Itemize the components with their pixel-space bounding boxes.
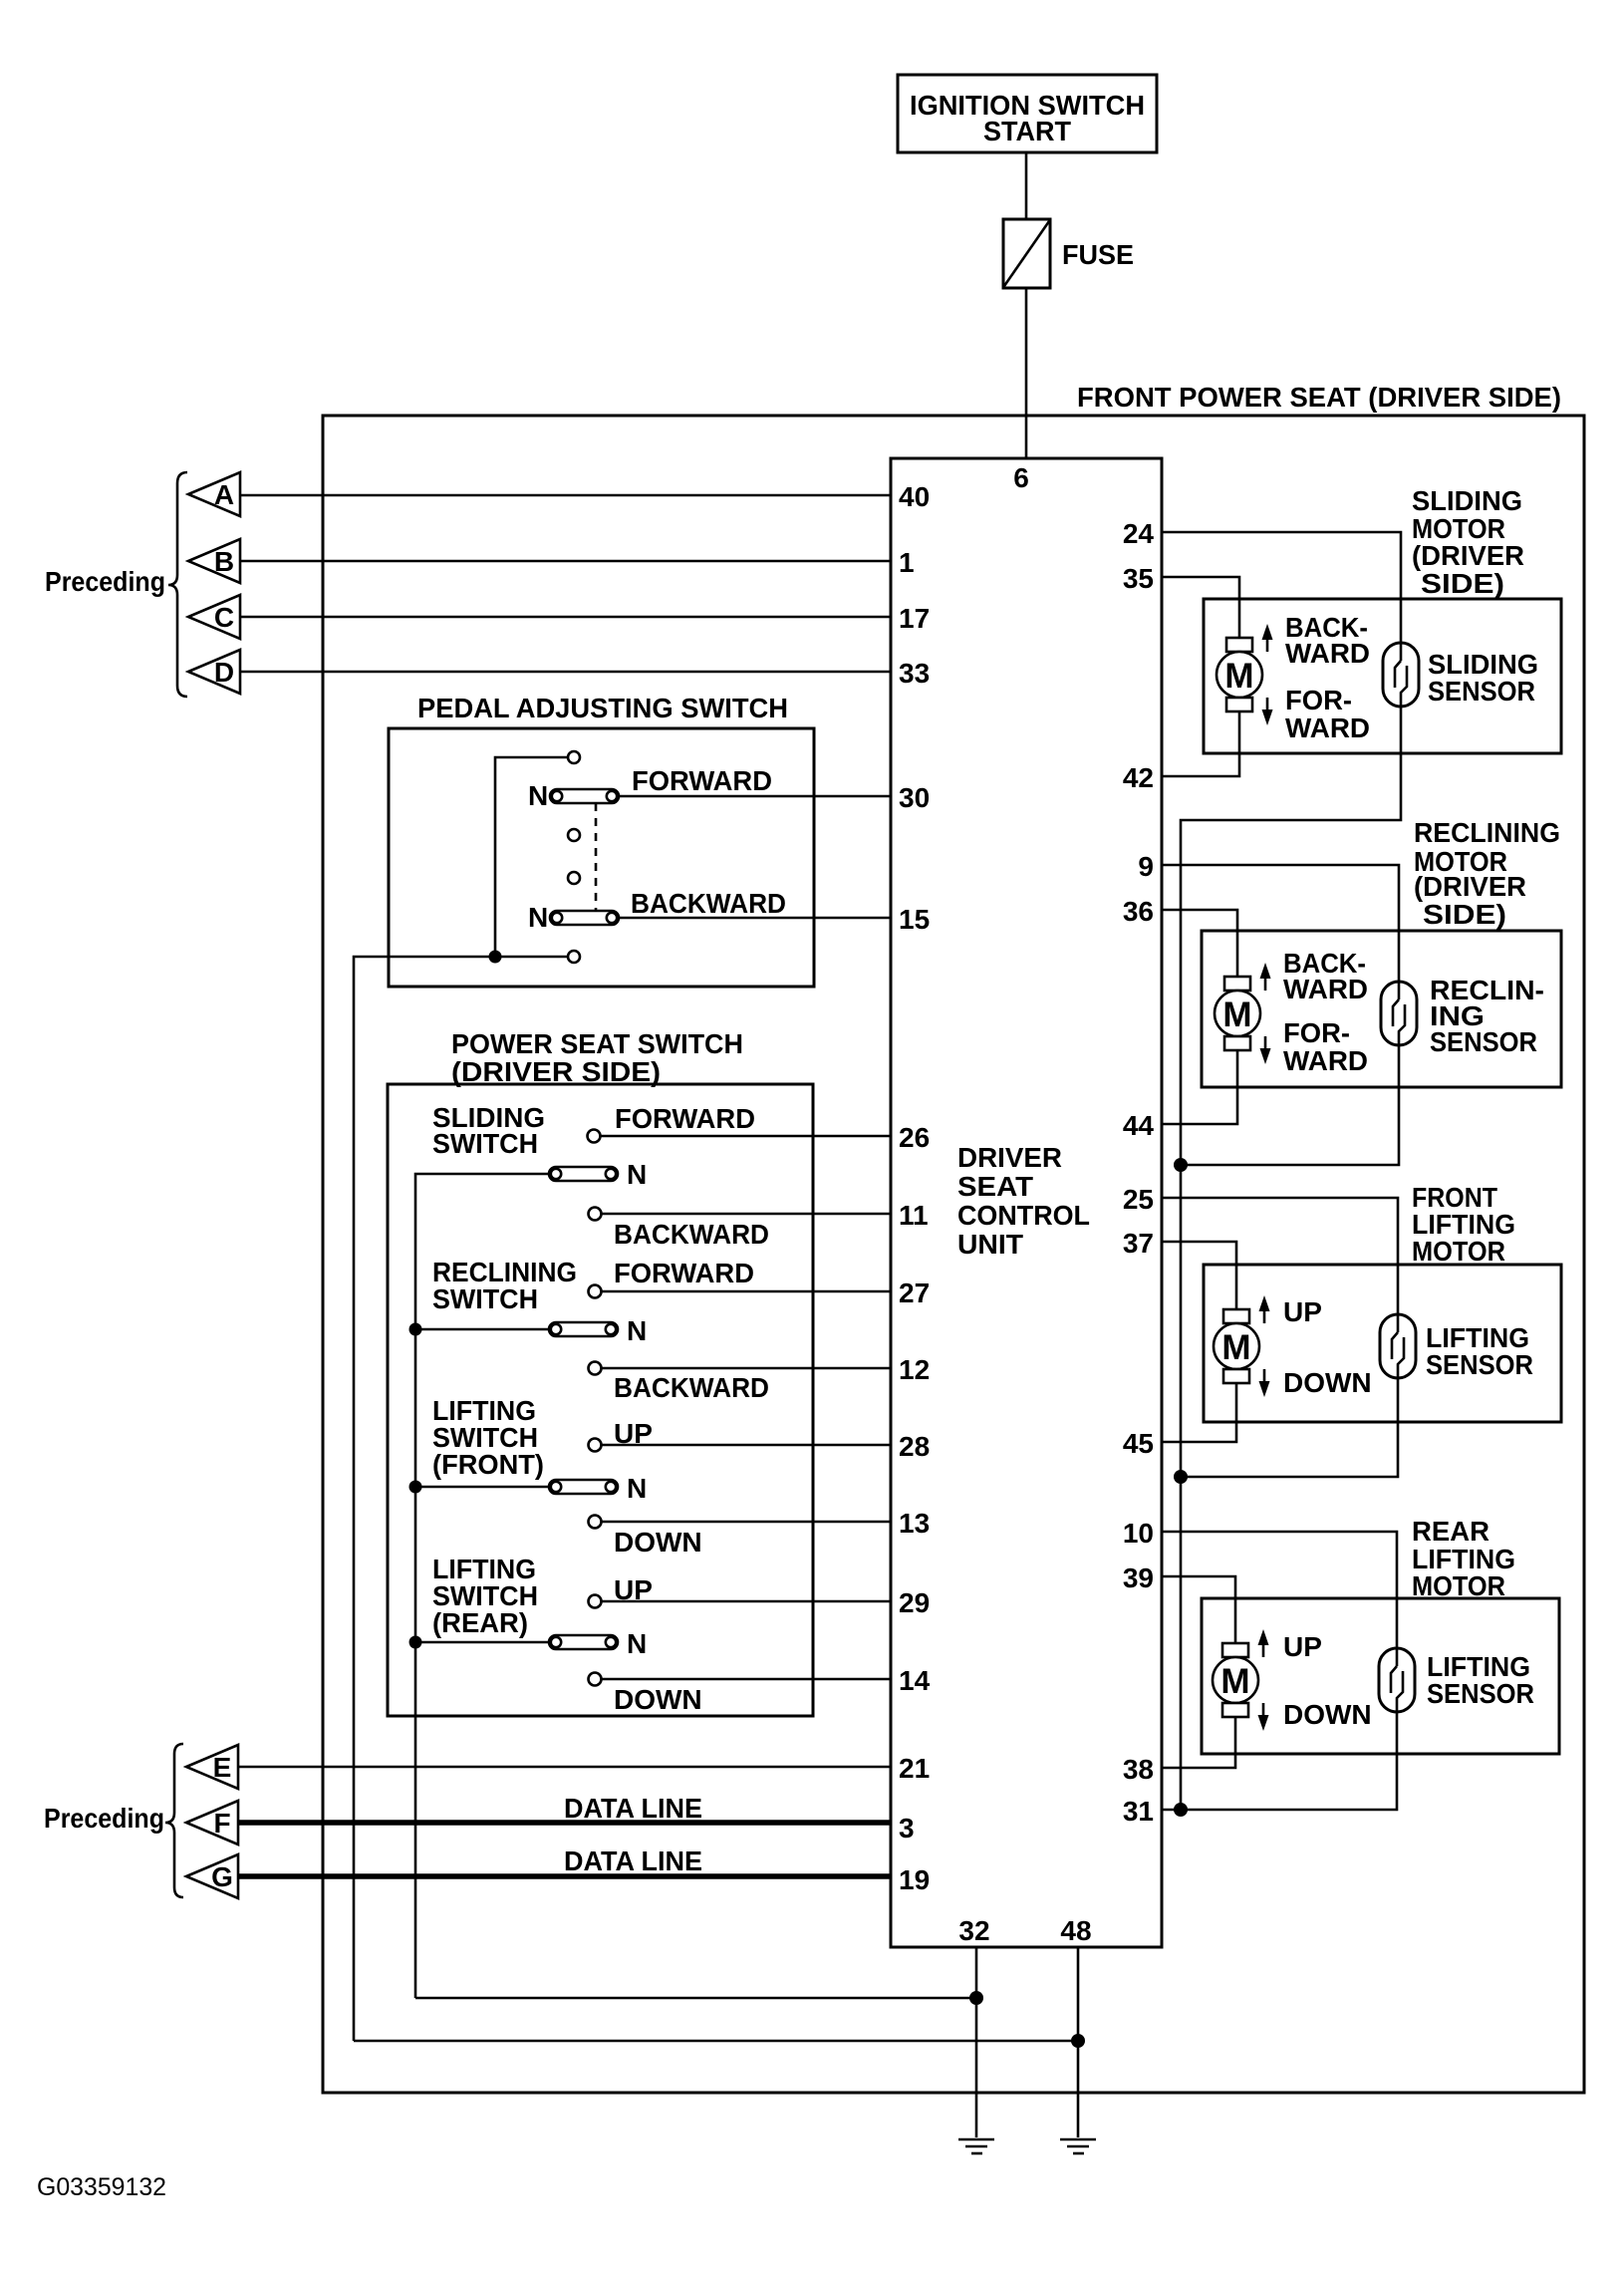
label BACK-WARD (sliding) (1285, 612, 1370, 669)
contact (bottom) (568, 951, 580, 963)
label SLIDING SENSOR (1428, 649, 1538, 707)
rear lifting motor box (1202, 1598, 1559, 1754)
arrow up (rear lifting) (1258, 1629, 1269, 1657)
wire rear lifting motor to pin 38 (1162, 1717, 1235, 1768)
svg-text:42: 42 (1123, 762, 1154, 793)
wire junction to rear lifting bar (415, 1641, 549, 1644)
wire pedal common to ground line (354, 957, 568, 2041)
wire to pin 15 (619, 917, 891, 920)
svg-text:FORWARD: FORWARD (632, 765, 772, 796)
connector arrow F (186, 1801, 238, 1844)
arrow down (rear lifting) (1258, 1703, 1269, 1731)
svg-text:REAR: REAR (1412, 1516, 1489, 1547)
power seat switch box (388, 1084, 813, 1716)
svg-text:26: 26 (899, 1122, 930, 1153)
svg-text:1: 1 (899, 547, 915, 578)
arrow down (front lifting) (1259, 1369, 1270, 1397)
contact reclining backward (589, 1362, 602, 1375)
wire G to pin 19 (data line) (238, 1873, 891, 1879)
svg-text:WARD: WARD (1285, 638, 1370, 669)
wire F to pin 3 (data line) (238, 1820, 891, 1826)
svg-text:M: M (1220, 1662, 1249, 1701)
svg-text:B: B (214, 546, 234, 577)
brace upper preceding group (168, 472, 187, 697)
wire reclining sensor to bus (1181, 1045, 1399, 1165)
wire junction to front lifting bar (415, 1486, 549, 1489)
motor M3 front lifting (1214, 1309, 1259, 1383)
svg-text:POWER SEAT SWITCH: POWER SEAT SWITCH (451, 1028, 743, 1059)
wire pin 35 to sliding motor (1162, 577, 1239, 638)
svg-text:6: 6 (1013, 462, 1029, 493)
wire to pin 29 (602, 1600, 891, 1603)
rear lifting sensor (1379, 1648, 1415, 1712)
svg-text:SIDE): SIDE) (1423, 899, 1506, 930)
pedal adjusting switch box (389, 728, 814, 987)
svg-text:31: 31 (1123, 1796, 1154, 1827)
label LIFTING SWITCH (REAR) (432, 1554, 538, 1638)
svg-text:38: 38 (1123, 1754, 1154, 1785)
arrow up (front lifting) (1259, 1295, 1270, 1323)
svg-text:N: N (627, 1473, 647, 1504)
svg-text:DOWN: DOWN (1283, 1367, 1372, 1398)
wire to pin 28 (602, 1444, 891, 1447)
svg-text:UP: UP (1283, 1296, 1322, 1327)
svg-text:(DRIVER: (DRIVER (1412, 540, 1524, 571)
svg-text:SENSOR: SENSOR (1430, 1026, 1537, 1057)
motor M1 sliding (1217, 638, 1262, 711)
sliding sensor (1383, 643, 1419, 707)
junction rear lifting N (409, 1636, 422, 1649)
svg-text:19: 19 (899, 1864, 930, 1895)
wire to pin 27 (602, 1290, 891, 1293)
arrow backward (reclining) (1260, 963, 1271, 991)
svg-text:17: 17 (899, 603, 930, 634)
ground symbol (pin 48) (1060, 2139, 1096, 2153)
svg-text:PEDAL ADJUSTING SWITCH: PEDAL ADJUSTING SWITCH (417, 693, 788, 723)
junction bus at front lifting sensor (1174, 1470, 1188, 1484)
wire front lifting motor to pin 45 (1162, 1383, 1236, 1442)
svg-text:44: 44 (1123, 1110, 1155, 1141)
svg-text:(DRIVER SIDE): (DRIVER SIDE) (451, 1056, 661, 1087)
front lifting motor box (1204, 1265, 1561, 1422)
svg-text:MOTOR: MOTOR (1412, 1236, 1505, 1267)
contact front lifting up (589, 1439, 602, 1452)
wire junction to reclining bar (415, 1328, 549, 1331)
svg-text:M: M (1222, 995, 1251, 1034)
svg-text:FORWARD: FORWARD (615, 1103, 755, 1134)
contact (middle upper) (568, 829, 580, 841)
svg-text:Preceding: Preceding (45, 566, 165, 597)
svg-text:SENSOR: SENSOR (1428, 676, 1535, 707)
svg-text:RECLINING: RECLINING (1414, 817, 1560, 848)
svg-text:N: N (528, 902, 548, 933)
label FOR-WARD (sliding) (1285, 685, 1370, 743)
contact reclining forward (589, 1285, 602, 1298)
svg-text:13: 13 (899, 1508, 930, 1539)
label RECLINING SWITCH (432, 1257, 577, 1314)
svg-text:BACKWARD: BACKWARD (614, 1219, 769, 1250)
svg-text:DOWN: DOWN (614, 1684, 702, 1715)
svg-text:15: 15 (899, 904, 930, 935)
svg-text:WARD: WARD (1285, 712, 1370, 743)
svg-text:10: 10 (1123, 1518, 1154, 1549)
svg-text:G: G (211, 1861, 233, 1892)
wire pin 31 to rear lifting sensor (1162, 1712, 1397, 1810)
wire pin 36 to reclining motor (1162, 910, 1237, 977)
switch bar N-FORWARD (550, 789, 619, 803)
arrow backward (sliding) (1262, 624, 1273, 652)
svg-text:9: 9 (1138, 851, 1154, 882)
svg-text:45: 45 (1123, 1428, 1154, 1459)
wire pin 39 to rear lifting motor (1162, 1576, 1235, 1643)
svg-text:SENSOR: SENSOR (1426, 1349, 1533, 1380)
switch bar rear lifting N (549, 1635, 618, 1649)
wire to pin 26 (601, 1135, 891, 1138)
svg-text:F: F (213, 1808, 230, 1839)
svg-text:WARD: WARD (1283, 1045, 1368, 1076)
svg-text:37: 37 (1123, 1228, 1154, 1259)
driver seat control unit box (891, 458, 1162, 1947)
wire switch common to pin-32 ground wire (415, 1997, 976, 2000)
svg-text:M: M (1224, 657, 1253, 696)
svg-text:12: 12 (899, 1354, 930, 1385)
brace lower preceding group (165, 1744, 183, 1897)
svg-text:40: 40 (899, 481, 930, 512)
svg-text:Preceding: Preceding (44, 1803, 164, 1834)
svg-text:21: 21 (899, 1753, 930, 1784)
outer box FRONT POWER SEAT boundary (323, 416, 1584, 2093)
label FOR-WARD (reclining) (1283, 1017, 1368, 1076)
motor M2 reclining (1215, 977, 1260, 1050)
reclining motor box (1202, 931, 1561, 1087)
label REAR LIFTING MOTOR (1412, 1516, 1515, 1601)
wire D to pin 33 (240, 671, 891, 674)
arrow forward (reclining) (1260, 1036, 1271, 1064)
wire to pin 14 (602, 1678, 891, 1681)
label SLIDING MOTOR (DRIVER SIDE) (1412, 485, 1524, 599)
wire E to pin 21 (238, 1766, 891, 1769)
svg-text:32: 32 (958, 1915, 989, 1946)
svg-text:FORWARD: FORWARD (614, 1258, 754, 1288)
svg-text:D: D (214, 657, 234, 688)
junction on pin-32 ground wire (969, 1991, 983, 2005)
svg-text:N: N (627, 1628, 647, 1659)
contact (middle lower) (568, 872, 580, 884)
svg-text:DOWN: DOWN (1283, 1699, 1372, 1730)
junction on pin-48 ground wire (1071, 2034, 1085, 2048)
switch bar N-BACKWARD (550, 911, 619, 925)
connector arrow A (188, 472, 240, 516)
svg-text:39: 39 (1123, 1562, 1154, 1593)
svg-text:29: 29 (899, 1587, 930, 1618)
svg-text:UNIT: UNIT (957, 1229, 1023, 1260)
label RECLINING MOTOR (DRIVER SIDE) (1414, 817, 1560, 930)
label LIFTING SWITCH (FRONT) (432, 1395, 544, 1480)
svg-text:28: 28 (899, 1431, 930, 1462)
ground symbol (pin 32) (958, 2139, 994, 2153)
svg-text:35: 35 (1123, 563, 1154, 594)
svg-text:33: 33 (899, 658, 930, 689)
svg-text:FOR-: FOR- (1283, 1017, 1350, 1048)
label DRIVER SEAT CONTROL UNIT (957, 1142, 1090, 1260)
wire C to pin 17 (240, 616, 891, 619)
svg-text:WARD: WARD (1283, 974, 1368, 1004)
wire ignition to fuse (1025, 152, 1028, 219)
svg-text:M: M (1221, 1328, 1250, 1367)
svg-text:SWITCH: SWITCH (432, 1283, 538, 1314)
svg-text:UP: UP (1283, 1631, 1322, 1662)
svg-text:SENSOR: SENSOR (1427, 1678, 1534, 1709)
junction bus at pin 31 wire (1174, 1803, 1188, 1817)
contact sliding forward (588, 1130, 601, 1143)
wire pin 24 to sliding sensor (1162, 532, 1401, 661)
switch bar reclining N (549, 1322, 618, 1336)
contact rear lifting up (589, 1595, 602, 1608)
svg-text:FUSE: FUSE (1062, 239, 1134, 270)
contact sliding backward (589, 1208, 602, 1221)
svg-text:E: E (213, 1752, 232, 1783)
svg-text:3: 3 (899, 1813, 915, 1844)
junction bus at reclining sensor (1174, 1158, 1188, 1172)
sliding motor box (1204, 599, 1561, 753)
wire pin 32 to ground (975, 1947, 978, 2137)
label LIFTING SENSOR (rear) (1427, 1651, 1534, 1709)
wire sliding sensor to bus (1181, 707, 1401, 1810)
wire pin 37 to front lifting motor (1162, 1242, 1236, 1309)
svg-text:(FRONT): (FRONT) (432, 1449, 544, 1480)
svg-text:FOR-: FOR- (1285, 685, 1352, 715)
wire pin 25 to front lifting sensor (1162, 1198, 1398, 1332)
svg-text:30: 30 (899, 782, 930, 813)
wire B to pin 1 (240, 560, 891, 563)
wire pedal common to pin-48 ground wire (354, 2040, 1078, 2043)
svg-text:(DRIVER: (DRIVER (1414, 871, 1526, 902)
wire top contact to common (495, 757, 568, 957)
svg-text:24: 24 (1123, 518, 1155, 549)
wire A to pin 40 (240, 494, 891, 497)
svg-text:25: 25 (1123, 1184, 1154, 1215)
svg-text:N: N (627, 1159, 647, 1190)
connector arrow E (186, 1745, 238, 1789)
label LIFTING SENSOR (front) (1426, 1322, 1533, 1380)
wire to pin 30 (619, 795, 891, 798)
fuse F1 (1003, 219, 1050, 288)
switch bar sliding N (549, 1167, 618, 1181)
label BACK-WARD (reclining) (1283, 948, 1368, 1004)
arrow forward (sliding) (1262, 698, 1273, 725)
wire sliding motor to pin 42 (1162, 711, 1239, 776)
svg-text:11: 11 (899, 1200, 929, 1231)
svg-text:SWITCH: SWITCH (432, 1128, 538, 1159)
common bus wire (switch N common) (415, 1174, 549, 1998)
svg-text:48: 48 (1060, 1915, 1091, 1946)
svg-text:36: 36 (1123, 896, 1154, 927)
svg-text:DATA LINE: DATA LINE (564, 1845, 702, 1876)
svg-text:BACKWARD: BACKWARD (614, 1372, 769, 1403)
svg-text:DATA LINE: DATA LINE (564, 1793, 702, 1824)
junction front lifting N (409, 1481, 422, 1494)
svg-text:DOWN: DOWN (614, 1527, 702, 1558)
wire to pin 12 (602, 1367, 891, 1370)
svg-text:MOTOR: MOTOR (1412, 1570, 1505, 1601)
motor M4 rear lifting (1213, 1643, 1258, 1717)
wire pin 9 to reclining sensor (1162, 865, 1399, 999)
contact (top) (568, 751, 580, 763)
connector arrow G (186, 1854, 238, 1898)
wire front lifting sensor to bus (1181, 1378, 1398, 1477)
ignition switch box (898, 75, 1157, 152)
connector arrow B (188, 539, 240, 583)
svg-text:FRONT POWER SEAT (DRIVER SIDE): FRONT POWER SEAT (DRIVER SIDE) (1077, 382, 1561, 413)
svg-text:DRIVER: DRIVER (957, 1142, 1062, 1173)
svg-text:START: START (983, 116, 1071, 146)
wire to pin 11 (602, 1213, 891, 1216)
svg-text:A: A (214, 479, 234, 510)
connector arrow C (188, 595, 240, 639)
svg-text:N: N (528, 780, 548, 811)
wire pin 10 to rear lifting sensor (1162, 1532, 1397, 1666)
junction reclining N (409, 1323, 422, 1336)
svg-text:CONTROL: CONTROL (957, 1200, 1090, 1231)
svg-text:BACKWARD: BACKWARD (631, 888, 786, 919)
junction pedal common (489, 951, 502, 964)
label SLIDING SWITCH (432, 1102, 545, 1159)
svg-text:SIDE): SIDE) (1421, 568, 1504, 599)
wire to pin 13 (602, 1521, 891, 1524)
svg-text:SEAT: SEAT (957, 1171, 1033, 1202)
wire pin 48 to ground (1077, 1947, 1080, 2137)
svg-text:N: N (627, 1315, 647, 1346)
svg-text:14: 14 (899, 1665, 931, 1696)
dashed link between switch bars (595, 803, 598, 911)
svg-text:C: C (214, 602, 234, 633)
label FRONT LIFTING MOTOR (1412, 1182, 1515, 1267)
wire fuse to control unit pin 6 (1025, 288, 1028, 458)
svg-text:G03359132: G03359132 (37, 2173, 166, 2201)
svg-text:27: 27 (899, 1277, 930, 1308)
contact front lifting down (589, 1516, 602, 1529)
contact rear lifting down (589, 1673, 602, 1686)
svg-text:SLIDING: SLIDING (1412, 485, 1522, 516)
label RECLIN-ING SENSOR (1430, 975, 1544, 1057)
switch bar front lifting N (549, 1480, 618, 1494)
wire reclining motor to pin 44 (1162, 1050, 1237, 1124)
connector arrow D (188, 650, 240, 694)
reclining sensor (1381, 982, 1417, 1045)
front lifting sensor (1380, 1314, 1416, 1378)
svg-text:(REAR): (REAR) (432, 1607, 528, 1638)
